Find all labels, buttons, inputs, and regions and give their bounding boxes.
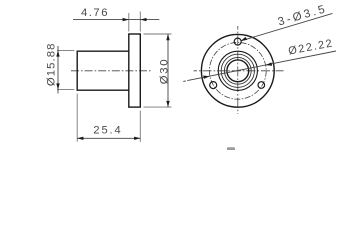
dim 25.4: extension line left xyxy=(76,94,78,142)
dim O30: extension line top xyxy=(144,33,172,35)
hole top xyxy=(234,38,241,45)
cylinder body outline xyxy=(77,51,129,90)
dim 4.76: right arrow xyxy=(140,18,146,21)
chamfer circle xyxy=(221,54,254,87)
hole lower-left xyxy=(210,82,217,89)
svg-text:Ø15.88: Ø15.88 xyxy=(46,42,58,86)
leader O22.22: main line xyxy=(187,51,336,81)
boss circle xyxy=(218,51,257,90)
dim O15.88: dimension line xyxy=(57,46,59,94)
dim O15.88: bottom arrow xyxy=(56,83,59,89)
centerline (horizontal dash-dot through left view) xyxy=(71,70,153,72)
dim 25.4: extension line right xyxy=(139,111,141,142)
leader O22.22: left arrow on bolt circle xyxy=(203,76,210,79)
horizontal centerline xyxy=(194,70,284,72)
leader 3-O3.5: arrow at top hole xyxy=(241,37,247,41)
bolt circle (dash-dot) xyxy=(209,42,266,99)
dim 4.76: left arrow xyxy=(123,18,129,21)
counterbore circle xyxy=(224,57,251,84)
dim O30: extension line bottom xyxy=(144,106,172,108)
dim O30: dimension line xyxy=(167,34,169,107)
dim 4.76: extension line right xyxy=(139,12,141,32)
dim 25.4: dimension line xyxy=(77,137,140,139)
bore circle xyxy=(227,60,249,82)
outer flange circle xyxy=(201,34,274,107)
scrollbar thumb fragment (bottom) xyxy=(227,147,235,150)
dim O15.88: extension line top xyxy=(57,49,74,51)
leader O22.22: right arrow on bolt circle xyxy=(266,62,273,65)
dim O30: top arrow xyxy=(166,34,169,40)
svg-text:4.76: 4.76 xyxy=(81,7,109,19)
dim 25.4: right arrow xyxy=(134,137,140,140)
dim 4.76: extension line left xyxy=(128,13,130,32)
dim 25.4: left arrow xyxy=(77,137,83,140)
dim O15.88: extension line bottom xyxy=(57,89,74,91)
dim O30: bottom arrow xyxy=(166,101,169,107)
svg-text:Ø30: Ø30 xyxy=(159,58,171,84)
hole lower-right xyxy=(258,82,265,89)
flange outline xyxy=(129,34,141,107)
dim O15.88: top arrow xyxy=(56,50,59,56)
svg-text:25.4: 25.4 xyxy=(93,125,122,137)
leader 3-O3.5: line xyxy=(241,13,333,41)
vertical centerline xyxy=(237,26,239,114)
leader O22.22: small tail dash xyxy=(183,80,186,83)
dim 4.76: dimension line xyxy=(73,19,159,21)
